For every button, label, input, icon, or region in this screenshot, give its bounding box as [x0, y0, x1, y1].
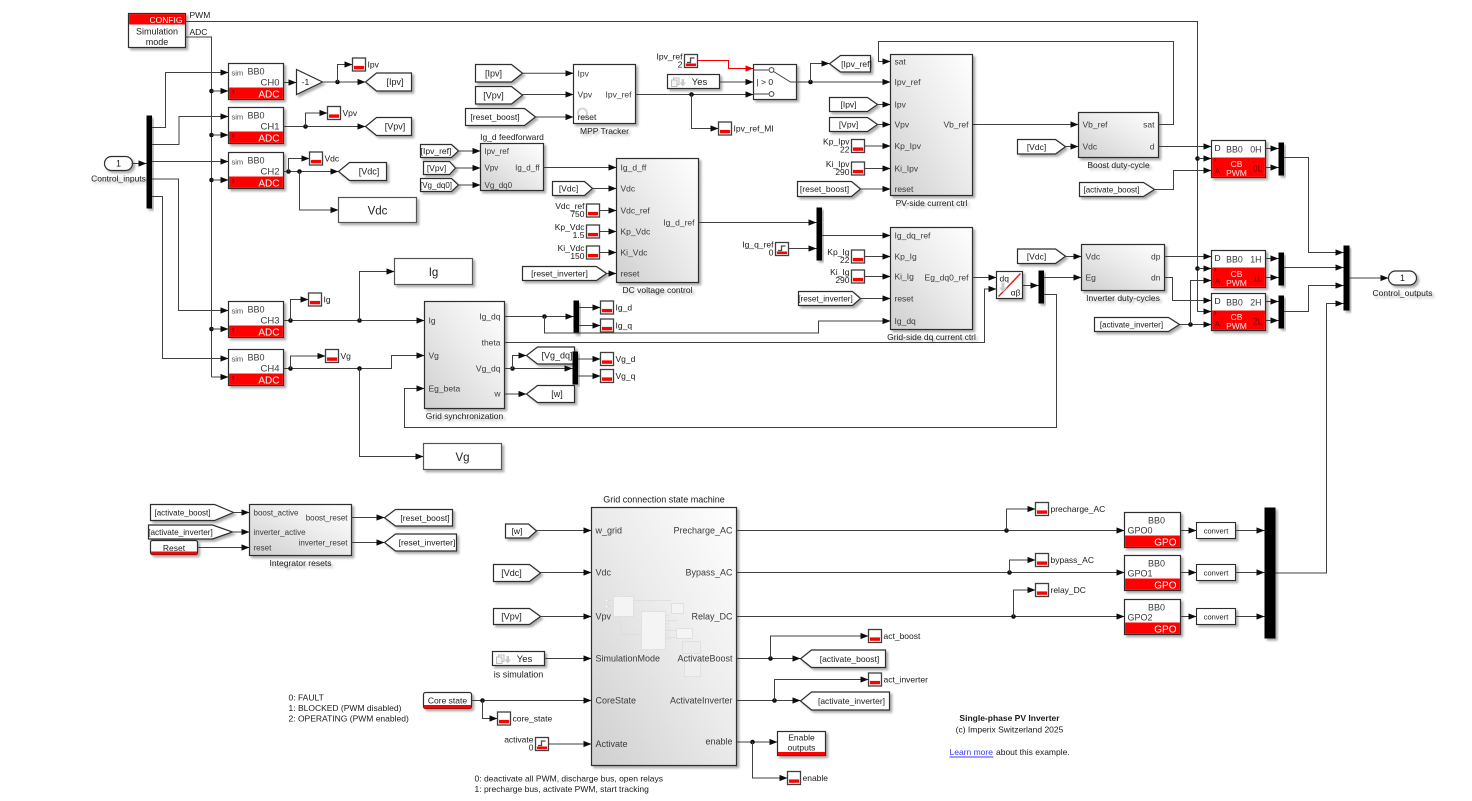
svg-text:GPO: GPO — [1154, 625, 1176, 636]
svg-text:[Vpv]: [Vpv] — [839, 120, 858, 130]
svg-text:[reset_boost]: [reset_boost] — [800, 184, 849, 194]
svg-text:Vb_ref: Vb_ref — [1083, 120, 1109, 130]
svg-text:sim: sim — [232, 355, 244, 364]
svg-text:[reset_inverter]: [reset_inverter] — [798, 295, 853, 304]
svg-text:Ipv: Ipv — [895, 100, 907, 110]
CB PWM block BB0 2H/2L — [1212, 294, 1266, 332]
svg-text:›: › — [1214, 308, 1217, 319]
from [Vdc] (dcctrl) — [553, 182, 593, 196]
wire Control_inputs to bus — [132, 160, 147, 166]
svg-text:Vg_dq: Vg_dq — [476, 364, 501, 374]
svg-text:| > 0: | > 0 — [757, 77, 774, 87]
wire boost d to CB PWM0 — [1159, 143, 1212, 149]
svg-text:0: 0 — [769, 248, 774, 258]
wire MPP Ipv_ref to switch — [636, 91, 754, 97]
constant Ki_Vdc = 150 — [558, 243, 600, 261]
svg-text:Ig_dq: Ig_dq — [479, 312, 501, 322]
svg-text:precharge_AC: precharge_AC — [1051, 504, 1106, 514]
wire reset_boost to pvctrl — [861, 186, 891, 192]
svg-text:sim: sim — [232, 69, 244, 78]
svg-text:core_state: core_state — [513, 714, 553, 724]
wire ADC stub CH2 — [212, 177, 229, 183]
wire GPO2 to convert2 — [1181, 613, 1197, 619]
wire branch to scope bypass_AC — [1010, 557, 1036, 573]
svg-text:theta: theta — [482, 338, 501, 348]
svg-text:22: 22 — [840, 145, 850, 155]
from [Vpv] (pvctrl) — [830, 118, 878, 132]
wire branch to scope Vg — [291, 353, 326, 369]
wire demux to scope Ig_q — [579, 322, 601, 328]
wire 2L to mux2 — [1266, 317, 1279, 323]
wire bus to CH3 sim — [152, 179, 229, 314]
wire activate to sm — [549, 741, 592, 747]
svg-text:0: 0 — [529, 743, 534, 753]
wire dn to CB PWM2 — [1165, 278, 1212, 304]
wire Vdc to boost — [1066, 143, 1079, 149]
wire mux2 to big mux — [1284, 282, 1344, 311]
annotation learn more — [950, 747, 1070, 757]
subsystem PV-side current ctrl — [891, 55, 973, 209]
wire mux1 to big mux — [1284, 264, 1344, 270]
label Ig_d feedforward — [480, 132, 544, 142]
svg-text:[Vdc]: [Vdc] — [1027, 142, 1046, 152]
svg-text:[Ipv]: [Ipv] — [386, 77, 403, 87]
wire big mux to output port — [1350, 275, 1389, 281]
svg-text:PV-side current ctrl: PV-side current ctrl — [896, 198, 968, 208]
from [Vg_dq0] (ff) — [420, 179, 459, 192]
wire Vg_dq to demux — [510, 365, 572, 371]
svg-text:ADC: ADC — [190, 27, 208, 37]
wire Relay_DC to GPO2 — [737, 613, 1125, 619]
svg-text:inverter_active: inverter_active — [254, 528, 307, 537]
svg-text:Vg: Vg — [455, 452, 469, 464]
wire branch to scope Ipv_ref_MI — [692, 95, 719, 132]
wire Eg_dq0_ref to dq-ab — [973, 274, 997, 280]
wire mux0 to big mux — [1284, 158, 1344, 256]
wire 1H to mux1 — [1266, 255, 1279, 261]
svg-text:Vpv: Vpv — [343, 108, 358, 118]
wire Vpv to pvctrl — [878, 121, 891, 127]
MPP reset gray icon — [578, 109, 598, 123]
goto [Vpv] — [366, 118, 412, 136]
wire branch to scope Ipv — [338, 61, 353, 82]
svg-text:Single-phase PV Inverter: Single-phase PV Inverter — [959, 713, 1060, 723]
wire PWM stub to CB PWM 1 — [1198, 265, 1212, 271]
svg-text:Vpv: Vpv — [578, 90, 593, 100]
svg-text:[reset_boost]: [reset_boost] — [470, 112, 519, 122]
svg-text:[Vdc]: [Vdc] — [501, 568, 522, 578]
wire activate_inverter to CB PWM2 A — [1180, 321, 1212, 327]
svg-text:Learn more: Learn more — [950, 747, 994, 757]
wire w to sm — [537, 527, 592, 533]
wire bus to CH2 sim — [152, 158, 229, 164]
svg-text:CH0: CH0 — [260, 78, 279, 89]
wire branch to scope Vdc — [289, 155, 310, 171]
wire GPO0 to convert0 — [1181, 527, 1197, 533]
demux Vg_dq — [573, 352, 579, 385]
svg-text:αβ: αβ — [1011, 288, 1021, 298]
scope Ipv_ref_MI — [719, 122, 774, 135]
wire Eg beta feedback to grid sync — [405, 295, 1057, 428]
goto [Vg_dq] — [527, 347, 575, 364]
svg-text:inverter_reset: inverter_reset — [299, 539, 349, 548]
svg-text:relay_DC: relay_DC — [1051, 585, 1086, 595]
wire PWM net trunk — [186, 22, 1204, 312]
svg-text:›: › — [232, 87, 235, 98]
scope core_state — [498, 712, 553, 725]
wire sat feedback — [879, 42, 1174, 125]
scope Vdc — [310, 152, 340, 165]
svg-text:1: 1 — [116, 159, 121, 169]
wire branch to scope core_state — [483, 701, 498, 722]
svg-text:Control_inputs: Control_inputs — [91, 174, 146, 184]
wire Ipv to MPP — [523, 70, 574, 76]
svg-text:A: A — [1215, 276, 1221, 286]
svg-text:GPO2: GPO2 — [1128, 613, 1153, 623]
wire ADC net trunk — [186, 37, 214, 377]
svg-text:Vdc: Vdc — [596, 568, 612, 578]
mux Control_outputs — [1344, 246, 1350, 311]
svg-text:Vdc: Vdc — [1083, 142, 1098, 152]
constant Ki_Ig = 290 — [830, 267, 864, 285]
svg-text:Ig_q: Ig_q — [616, 321, 633, 331]
wire Kp_Ipv to pvctrl — [865, 143, 891, 149]
wire activate_inverter to resets — [233, 529, 250, 535]
wire bus to CH0 sim — [152, 69, 229, 127]
constant Kp_Ig = 22 — [827, 247, 864, 265]
svg-text:enable: enable — [705, 737, 732, 747]
svg-text:CONFIG: CONFIG — [149, 15, 182, 25]
svg-text:Vpv: Vpv — [485, 164, 499, 173]
svg-text:PWM: PWM — [190, 10, 211, 20]
GPO block BB0 GPO1 — [1125, 556, 1181, 592]
svg-text:[reset_inverter]: [reset_inverter] — [399, 538, 456, 548]
svg-text:Ki_Ig: Ki_Ig — [895, 272, 915, 282]
svg-text:Grid synchronization: Grid synchronization — [426, 411, 504, 421]
svg-text:[Vdc]: [Vdc] — [559, 184, 578, 194]
svg-text:about this example.: about this example. — [996, 747, 1070, 757]
svg-text:750: 750 — [570, 209, 584, 219]
svg-text:Kp_Ig: Kp_Ig — [895, 252, 917, 262]
svg-text:[Ipv]: [Ipv] — [485, 68, 502, 78]
from [Vdc] (boost) — [1018, 140, 1066, 155]
svg-text:Grid connection state machine: Grid connection state machine — [603, 495, 725, 505]
svg-text:BB0: BB0 — [248, 156, 265, 166]
wire Ig_dq feedback to Grid-side ctrl — [545, 317, 891, 334]
wire bus to CH4 sim — [152, 197, 229, 362]
wire Vdc_ref to dcctrl — [600, 207, 617, 213]
svg-text:Ig: Ig — [324, 295, 331, 305]
svg-text:[Vpv]: [Vpv] — [427, 163, 446, 173]
wire branch to scope act_boost — [771, 633, 869, 659]
svg-text:0: FAULT: 0: FAULT — [289, 693, 324, 703]
label Grid connection state machine — [603, 495, 725, 505]
svg-text:Ipv: Ipv — [368, 60, 380, 70]
demux Ig_dq — [574, 301, 580, 334]
from [reset_boost] (MPP) — [466, 109, 536, 126]
svg-text:boost_active: boost_active — [254, 509, 299, 518]
svg-text:2L: 2L — [1253, 317, 1263, 327]
constant Yes (is simulation bottom) — [493, 652, 545, 666]
svg-text:MPP Tracker: MPP Tracker — [580, 126, 629, 136]
svg-text:Activate: Activate — [596, 739, 628, 749]
svg-text:Ig_d feedforward: Ig_d feedforward — [480, 132, 544, 142]
net label ADC — [190, 27, 208, 37]
svg-text:Vdc: Vdc — [325, 154, 340, 164]
svg-text:Vdc_ref: Vdc_ref — [621, 206, 651, 216]
svg-text:[Vdc]: [Vdc] — [359, 167, 380, 177]
svg-text:dq: dq — [1000, 274, 1010, 284]
from [Vpv] (MPP) — [476, 87, 523, 105]
svg-text:d: d — [1150, 142, 1155, 152]
svg-text:reset: reset — [895, 184, 915, 194]
svg-text:Vpv: Vpv — [895, 120, 910, 130]
wire Ki_Vdc to dcctrl — [600, 249, 617, 255]
svg-text:Ig_d: Ig_d — [616, 303, 633, 313]
svg-text:D: D — [1215, 143, 1221, 153]
wire reset_inverter to gridctrl — [861, 295, 891, 301]
svg-text:Grid-side dq current ctrl: Grid-side dq current ctrl — [887, 332, 976, 342]
wire activate_boost to CB PWM0 A — [1155, 167, 1212, 189]
wire activate_inverter to CB PWM1 A — [1191, 277, 1212, 324]
wire Kp_Ig to gridctrl — [865, 253, 891, 259]
svg-text:A: A — [1215, 166, 1221, 176]
subsystem Grid synchronization — [425, 302, 505, 422]
svg-text:act_inverter: act_inverter — [884, 675, 929, 685]
svg-text:BB0: BB0 — [248, 305, 265, 315]
svg-text:convert: convert — [1204, 526, 1230, 535]
ADC block CH2 — [229, 153, 284, 190]
svg-text:[w]: [w] — [551, 389, 563, 399]
svg-text:BB0: BB0 — [1148, 603, 1165, 613]
svg-text:[activate_inverter]: [activate_inverter] — [148, 528, 213, 537]
scope act_inverter — [869, 673, 929, 686]
goto [activate_inverter] — [801, 692, 890, 710]
constant Yes (is simulation top) — [668, 75, 720, 89]
svg-text:PWM: PWM — [1226, 321, 1247, 331]
svg-text:ADC: ADC — [258, 134, 279, 145]
svg-text:CH2: CH2 — [260, 167, 279, 178]
svg-text:›: › — [232, 131, 235, 142]
wire Vg_dq out stub — [505, 368, 513, 370]
svg-text:Vdc: Vdc — [368, 206, 388, 218]
wire demux to scope Vg_d — [578, 356, 601, 362]
scope Ig_d — [601, 301, 633, 314]
svg-text:BB0: BB0 — [248, 67, 265, 77]
wire ADC stub CH1 — [212, 132, 229, 138]
constant Kp_Ipv = 22 — [823, 137, 864, 155]
constant Ipv_ref = 2 — [657, 52, 698, 70]
svg-text:Vg_d: Vg_d — [616, 354, 636, 364]
convert block 0 — [1197, 523, 1236, 539]
svg-text:ADC: ADC — [258, 376, 279, 387]
scope act_boost — [869, 630, 921, 643]
ADC block CH4 — [229, 350, 284, 387]
svg-text:ADC: ADC — [258, 179, 279, 190]
wire Vdc to sm — [541, 569, 592, 575]
svg-text:[Ipv_ref]: [Ipv_ref] — [421, 146, 452, 156]
svg-text:Relay_DC: Relay_DC — [691, 612, 733, 622]
wire Ig_q_ref to mux — [789, 245, 817, 251]
svg-text:Ig: Ig — [429, 267, 439, 279]
svg-text:1: precharge bus, activate PWM: 1: precharge bus, activate PWM, start tr… — [475, 784, 650, 794]
wire demux to scope Vg_q — [578, 373, 601, 379]
svg-text:1: BLOCKED (PWM disabled): 1: BLOCKED (PWM disabled) — [289, 703, 402, 713]
subsystem DC voltage control — [617, 159, 699, 296]
svg-text:2H: 2H — [1250, 298, 1261, 308]
svg-text:BB0: BB0 — [248, 111, 265, 121]
svg-text:BB0: BB0 — [1226, 255, 1243, 265]
wire branch to scope precharge_AC — [1007, 506, 1036, 531]
svg-text:Ipv_ref: Ipv_ref — [895, 77, 922, 87]
mux PWM2 — [1279, 296, 1285, 329]
svg-text:Ipv: Ipv — [578, 69, 590, 79]
from [reset_inverter] (dcctrl) — [523, 267, 607, 281]
svg-text:0H: 0H — [1250, 145, 1261, 155]
gain block -1 — [297, 70, 323, 95]
ADC block CH1 — [229, 108, 284, 145]
subsystem Ig_d feedforward — [481, 144, 544, 191]
svg-text:22: 22 — [840, 255, 850, 265]
wire Ki_Ig to gridctrl — [865, 273, 891, 279]
svg-text:ActivateInverter: ActivateInverter — [670, 696, 733, 706]
svg-text:PWM: PWM — [1226, 278, 1247, 288]
svg-text:2: 2 — [678, 60, 683, 70]
wire convert0 to GPO mux — [1236, 527, 1265, 533]
wire convert1 to GPO mux — [1236, 569, 1265, 575]
annotation activate values — [475, 774, 664, 795]
svg-text:convert: convert — [1204, 612, 1230, 621]
svg-text:[Vg_dq0]: [Vg_dq0] — [420, 181, 452, 190]
GPO block BB0 GPO0 — [1125, 513, 1181, 549]
svg-text:[activate_boost]: [activate_boost] — [154, 509, 210, 518]
input port 1 Control_inputs — [91, 157, 146, 184]
output port 1 Control_outputs — [1372, 271, 1432, 298]
from [activate_boost] (pwm0) — [1080, 183, 1155, 197]
wire theta to dq-ab — [505, 286, 997, 343]
from [Vdc] (invduty) — [1018, 249, 1066, 264]
svg-text:sim: sim — [232, 158, 244, 167]
svg-text:outputs: outputs — [788, 743, 816, 753]
wire Vpv to ff — [456, 165, 481, 171]
from [reset_boost] (pvctrl) — [798, 182, 861, 197]
goto [w] — [527, 386, 575, 403]
annotation core states — [289, 693, 409, 724]
wire 0L to mux0 — [1266, 164, 1279, 170]
wire CH4 out to grid sync Vg — [284, 352, 425, 370]
goto [reset_inverter] — [385, 534, 457, 551]
svg-text:convert: convert — [1204, 568, 1230, 577]
svg-text:BB0: BB0 — [1148, 516, 1165, 526]
svg-text:Vg: Vg — [341, 351, 352, 361]
svg-text:Ipv_ref: Ipv_ref — [606, 90, 633, 100]
wire Vdc to invduty — [1066, 253, 1082, 259]
constant activate = 0 — [504, 735, 548, 753]
svg-text:bypass_AC: bypass_AC — [1051, 555, 1094, 565]
scope bypass_AC — [1036, 554, 1094, 567]
mux PWM0 — [1279, 143, 1285, 176]
wire reset_inverter to dcctrl — [607, 270, 617, 276]
svg-text:reset: reset — [578, 112, 598, 122]
svg-text:is simulation: is simulation — [494, 670, 544, 680]
svg-text:GPO0: GPO0 — [1128, 526, 1153, 536]
from [Ipv] (pvctrl) — [830, 98, 878, 112]
svg-text:Enable: Enable — [788, 733, 815, 743]
svg-text:1.5: 1.5 — [573, 230, 585, 240]
svg-text:Ipv_ref: Ipv_ref — [485, 147, 510, 156]
svg-text:[activate_inverter]: [activate_inverter] — [1100, 321, 1163, 330]
svg-text:1L: 1L — [1253, 274, 1263, 284]
wire Precharge_AC to GPO0 — [737, 527, 1125, 533]
from [Vpv] (sm) — [494, 609, 541, 625]
svg-text:1H: 1H — [1250, 255, 1261, 265]
wire Ipv_ref to ff — [459, 148, 481, 154]
wire ADC stub CH4 — [212, 374, 229, 380]
wire ADC stub CH0 — [212, 88, 229, 94]
svg-text:Control_outputs: Control_outputs — [1372, 288, 1432, 298]
svg-text:mode: mode — [146, 37, 169, 47]
wire branch to scope act_inverter — [775, 676, 869, 700]
wire PWM stub to CB PWM 2 — [1198, 308, 1212, 314]
wire Ig_dq_ref to Grid-side ctrl — [822, 232, 891, 238]
svg-text:Boost duty-cycle: Boost duty-cycle — [1087, 160, 1150, 170]
svg-text:›: › — [1214, 155, 1217, 166]
wire inverter_reset to goto — [352, 539, 385, 545]
svg-text:reset: reset — [254, 544, 273, 553]
constant Ig_q_ref = 0 — [742, 240, 788, 258]
svg-text:290: 290 — [835, 275, 849, 285]
svg-text:Ig_d_ff: Ig_d_ff — [515, 164, 540, 173]
svg-text:PWM: PWM — [1226, 168, 1247, 178]
svg-text:[w]: [w] — [512, 526, 523, 536]
svg-text:[activate_inverter]: [activate_inverter] — [818, 696, 885, 706]
svg-text:Reset: Reset — [163, 543, 186, 553]
from [Vpv] (ff) — [424, 162, 456, 175]
wire GPO1 to convert1 — [1181, 569, 1197, 575]
scope Vg_q — [601, 370, 636, 383]
svg-text:ActivateBoost: ActivateBoost — [677, 654, 733, 664]
transform block dq to alpha-beta — [997, 272, 1023, 299]
wire branch to goto Ipv_ref — [811, 60, 830, 82]
from [reset_inverter] (gridctrl) — [798, 292, 860, 306]
wire Ig_d_ref to mux — [699, 219, 817, 225]
Enable outputs block — [778, 732, 826, 756]
wire demux to scope Ig_d — [579, 304, 601, 310]
svg-text:w: w — [493, 389, 501, 399]
goto [Ipv] — [366, 73, 412, 91]
subsystem Grid-side dq current ctrl — [887, 228, 976, 343]
svg-text:›: › — [232, 325, 235, 336]
wire branch to display Ig — [360, 268, 395, 320]
svg-text:Vg_dq0: Vg_dq0 — [485, 181, 513, 190]
ADC block CH0 — [229, 64, 284, 101]
svg-text:dp: dp — [1151, 252, 1161, 262]
svg-text:enable: enable — [803, 773, 829, 783]
CB PWM block BB0 0H/0L — [1212, 141, 1266, 179]
svg-text:Core state: Core state — [428, 696, 467, 706]
svg-text:Ki_Vdc: Ki_Vdc — [621, 248, 649, 258]
svg-text:Kp_Vdc: Kp_Vdc — [621, 227, 652, 237]
wire branch to scope Ig — [291, 296, 309, 320]
from [Ipv_ref] (ff) — [421, 145, 459, 158]
svg-text:Yes: Yes — [517, 654, 533, 665]
display Vg — [424, 444, 502, 470]
svg-text:Ig_dq_ref: Ig_dq_ref — [895, 231, 932, 241]
wire ADC stub CH3 — [212, 326, 229, 332]
svg-text:Inverter duty-cycles: Inverter duty-cycles — [1086, 293, 1160, 303]
Core state block — [424, 693, 472, 709]
svg-text:CH4: CH4 — [260, 364, 279, 375]
